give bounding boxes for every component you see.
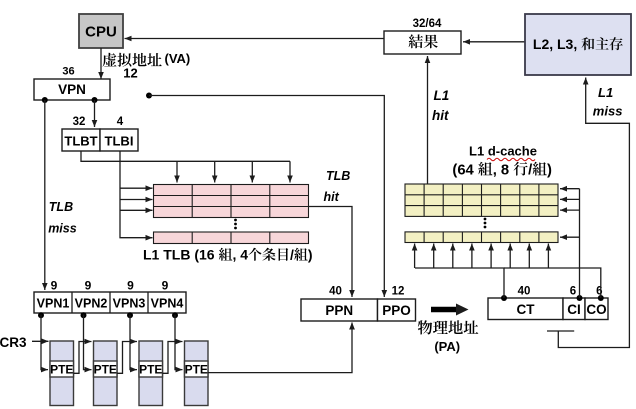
wire: cache to result (L1 hit) [425,56,431,184]
svg-text:TLBI: TLBI [105,134,134,149]
wire: VPN2 to PTE2 [84,315,92,373]
wire: CPU to VPN (virtual address) [98,48,104,79]
svg-text:VPN4: VPN4 [151,297,184,311]
wire: TLBI index to TLB sets [120,151,153,241]
svg-text:PTE: PTE [139,363,162,377]
label: L1 hit [432,88,449,123]
svg-text:36: 36 [62,66,74,78]
svg-text:VPN1: VPN1 [37,297,70,311]
svg-text:40: 40 [518,286,531,298]
svg-text:L1 TLB (16: L1 TLB (16 [143,247,215,263]
svg-text:CO: CO [586,302,606,317]
svg-text:L1: L1 [434,88,450,103]
junction dots under VPN1-4 [38,312,178,318]
cache ellipsis [484,218,487,229]
svg-text:VPN3: VPN3 [113,297,146,311]
PPN box [301,299,378,321]
wire: VPN4 to PTE4 [175,315,183,373]
svg-text:(64: (64 [452,162,474,178]
svg-text:PPO: PPO [382,303,411,318]
L2/L3/main memory box [525,14,631,75]
svg-text:PTE: PTE [94,363,117,377]
L1 TLB table (3 rows x 4 cols) [154,185,309,218]
junction dot: VA offset tap [146,93,152,99]
svg-text:CPU: CPU [85,24,117,41]
label: TLB hit [324,169,351,204]
page table 4 (PTE column) [185,341,209,406]
page table 2 (PTE column) [94,341,118,406]
junction dot VPN right [92,97,98,103]
wire: TLBT tag to TLB columns [81,151,293,183]
svg-text:miss: miss [593,103,623,118]
physical address thick arrow [431,304,469,316]
svg-text:/: / [528,162,532,178]
label: 40 (PPN width) [329,286,342,298]
label: 6 (CI width) [570,286,576,298]
svg-text:4: 4 [117,116,124,128]
CO box [585,298,608,320]
wire: CT tag bus to cache lines [412,244,601,299]
svg-text:CI: CI [567,302,581,317]
junction dot CT [501,295,507,301]
wire: VA offset to PPO [149,96,387,298]
L1 d-cache bottom row [405,232,558,243]
CPU box [79,14,123,48]
wire: TLB hit to PPN [309,207,355,298]
svg-text:, 8: , 8 [493,162,509,178]
svg-text:32: 32 [73,116,86,128]
svg-text:miss: miss [48,222,77,236]
junction dot CO [598,295,604,301]
label: 9 bit widths [51,278,169,292]
label: 36 [62,66,74,78]
wire: CI set index to cache sets [560,186,580,298]
svg-text:12: 12 [123,66,137,81]
label: (64 sets, 8 lines/set) [452,162,552,179]
wire: CR3 to PT1 [32,339,49,345]
svg-text:12: 12 [392,286,405,298]
label: CR3 [0,335,27,350]
svg-text:hit: hit [432,108,449,123]
cache data out crossbar [547,330,574,332]
svg-text:6: 6 [570,286,576,298]
svg-text:PPN: PPN [325,303,353,318]
wire: result bus into CPU [125,36,385,42]
svg-text:TLBT: TLBT [64,134,97,149]
svg-text:L2, L3,: L2, L3, [533,36,577,52]
L1 TLB bottom row [154,232,309,244]
svg-text:(VA): (VA) [165,51,191,66]
wire: VPN to TLBT/TLBI [92,100,98,127]
svg-text:9: 9 [127,278,134,292]
svg-text:, 4: , 4 [233,247,249,263]
svg-text:VPN2: VPN2 [75,297,108,311]
svg-text:9: 9 [51,278,58,292]
page table 1 (PTE column) [50,341,74,406]
label: 32 [73,116,86,128]
page table 3 (PTE column) [139,341,163,406]
junction dot VPN left [42,97,48,103]
wire: VPN1 to PTE1 [41,315,48,373]
label: 12 (PPO width) [392,286,405,298]
label: L1 TLB (16 sets, 4 entries/set) [143,247,313,263]
CI box [563,298,585,320]
label: (PA) [434,339,460,354]
TLBT box [62,129,100,151]
PPO box [378,299,416,321]
svg-text:TLB: TLB [326,169,350,183]
svg-text:TLB: TLB [49,200,73,214]
svg-text:CT: CT [517,302,536,317]
label: 32/64 [413,18,442,30]
svg-text:CR3: CR3 [0,335,27,350]
label: 6 (CO width) [596,286,602,298]
label: L1 d-cache [469,144,537,161]
label: 40 (CT width) [518,286,531,298]
svg-text:): ) [308,247,313,263]
svg-text:L1 d-cache: L1 d-cache [469,144,537,159]
svg-text:PTE: PTE [185,363,208,377]
wire: VPN3 to PTE3 [130,315,137,373]
svg-text:PTE: PTE [50,363,73,377]
svg-text:32/64: 32/64 [413,18,442,30]
label: L1 miss [593,85,623,118]
wire: TLB miss path VPN to VPN1 [42,100,48,290]
label: virtual address (VA) [103,51,191,67]
TLB ellipsis [234,219,237,230]
label: 4 [117,116,124,128]
junction dot CI [577,295,583,301]
VPN box [34,79,110,100]
svg-text:40: 40 [329,286,342,298]
label: 12 (VPN offset) [123,66,137,81]
TLBI box [100,129,138,151]
wire: PTE2 to page table 3 [117,339,137,374]
wire: L1 miss path to L2 [558,78,629,348]
label: TLB miss [48,200,77,236]
wire: PTE4 PPN to PPN box [208,323,355,373]
wire: PTE3 to page table 4 [163,339,183,374]
result box [384,31,461,54]
wire: L2 to result [463,39,525,45]
L1 d-cache table (3 rows x 8 cols) [405,184,558,216]
VPN1-VPN4 boxes [34,292,186,313]
label: physical address [418,320,478,334]
svg-text:): ) [547,162,552,178]
svg-text:VPN: VPN [58,82,86,97]
svg-text:(PA): (PA) [434,339,460,354]
CT box [488,298,563,320]
svg-text:9: 9 [85,278,92,292]
svg-text:9: 9 [162,278,169,292]
wire: PTE1 to page table 2 [74,339,92,374]
svg-text:L1: L1 [598,85,613,100]
svg-text:/: / [290,247,294,263]
svg-text:hit: hit [324,190,340,204]
